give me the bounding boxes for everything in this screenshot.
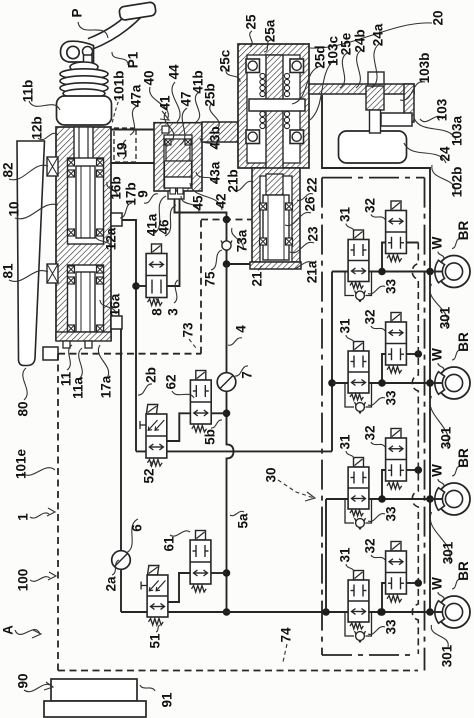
svg-text:102b: 102b <box>450 167 465 198</box>
svg-text:1: 1 <box>16 513 31 521</box>
svg-text:73: 73 <box>181 322 196 338</box>
svg-text:47a: 47a <box>129 84 144 107</box>
svg-text:103: 103 <box>435 98 450 121</box>
svg-text:74: 74 <box>279 627 294 643</box>
svg-text:82: 82 <box>1 162 16 177</box>
svg-text:17a: 17a <box>99 375 114 398</box>
svg-text:103b: 103b <box>417 53 432 84</box>
svg-text:25c: 25c <box>218 49 233 72</box>
svg-text:W: W <box>430 577 445 590</box>
svg-text:25a: 25a <box>263 19 278 42</box>
svg-text:P: P <box>70 8 85 17</box>
svg-text:21: 21 <box>250 271 265 287</box>
svg-text:24: 24 <box>438 146 453 162</box>
svg-text:101e: 101e <box>14 448 29 479</box>
svg-text:81: 81 <box>1 263 16 279</box>
svg-text:32: 32 <box>363 538 378 553</box>
svg-text:7: 7 <box>240 371 255 379</box>
svg-text:9: 9 <box>136 190 151 198</box>
svg-text:52: 52 <box>142 468 157 483</box>
svg-text:16a: 16a <box>108 293 123 316</box>
svg-text:BR: BR <box>456 448 471 468</box>
svg-text:31: 31 <box>338 207 353 223</box>
svg-text:W: W <box>430 464 445 477</box>
svg-text:25e: 25e <box>339 32 354 55</box>
svg-text:A: A <box>1 625 16 635</box>
svg-text:24b: 24b <box>353 29 368 52</box>
svg-text:16b: 16b <box>109 176 124 199</box>
svg-text:3: 3 <box>166 308 181 316</box>
svg-text:6: 6 <box>130 524 145 532</box>
svg-text:62: 62 <box>164 374 179 389</box>
svg-text:301: 301 <box>438 306 453 329</box>
svg-text:P1: P1 <box>126 51 141 68</box>
svg-text:BR: BR <box>456 561 471 581</box>
svg-text:301: 301 <box>439 426 454 449</box>
svg-text:32: 32 <box>363 198 378 213</box>
svg-text:25b: 25b <box>203 83 218 106</box>
svg-text:31: 31 <box>338 318 353 334</box>
svg-text:2a: 2a <box>104 576 119 592</box>
svg-text:23: 23 <box>306 226 321 242</box>
svg-text:41: 41 <box>158 95 173 111</box>
svg-text:301: 301 <box>441 541 456 564</box>
svg-text:33: 33 <box>384 619 399 635</box>
svg-text:40: 40 <box>142 70 157 85</box>
svg-text:11b: 11b <box>21 80 36 103</box>
svg-text:46: 46 <box>157 219 172 235</box>
svg-text:91: 91 <box>160 692 175 708</box>
svg-text:101b: 101b <box>112 71 127 102</box>
svg-text:4: 4 <box>234 325 249 333</box>
svg-text:45: 45 <box>191 195 206 211</box>
svg-text:90: 90 <box>16 673 31 688</box>
svg-text:10: 10 <box>7 201 22 216</box>
svg-text:43a: 43a <box>208 161 223 184</box>
svg-text:32: 32 <box>363 309 378 324</box>
svg-text:75: 75 <box>203 271 218 287</box>
svg-text:22: 22 <box>305 177 320 192</box>
svg-text:12b: 12b <box>30 116 45 139</box>
svg-text:19: 19 <box>115 142 130 157</box>
svg-text:301: 301 <box>440 644 455 667</box>
svg-text:33: 33 <box>384 390 399 406</box>
svg-text:12a: 12a <box>104 227 119 250</box>
svg-text:2b: 2b <box>144 367 159 383</box>
svg-text:31: 31 <box>338 434 353 450</box>
svg-text:33: 33 <box>384 506 399 522</box>
svg-text:BR: BR <box>456 221 471 241</box>
svg-text:61: 61 <box>162 536 177 552</box>
svg-text:100: 100 <box>16 569 31 592</box>
svg-text:25: 25 <box>244 14 259 30</box>
svg-text:5b: 5b <box>203 429 218 445</box>
svg-text:26: 26 <box>303 196 318 212</box>
svg-text:BR: BR <box>456 332 471 352</box>
svg-text:24a: 24a <box>371 23 386 46</box>
svg-text:43b: 43b <box>208 126 223 149</box>
svg-text:33: 33 <box>384 279 399 295</box>
svg-text:32: 32 <box>363 425 378 440</box>
svg-text:44: 44 <box>167 64 182 80</box>
svg-text:21a: 21a <box>305 260 320 283</box>
svg-text:51: 51 <box>148 633 163 649</box>
svg-text:42: 42 <box>214 193 229 208</box>
svg-text:11a: 11a <box>71 377 86 399</box>
svg-text:103a: 103a <box>450 115 465 146</box>
svg-text:20: 20 <box>431 10 446 25</box>
svg-text:W: W <box>430 236 445 249</box>
svg-text:5a: 5a <box>236 513 251 529</box>
svg-text:W: W <box>430 348 445 361</box>
svg-text:8: 8 <box>150 308 165 316</box>
svg-text:30: 30 <box>264 467 279 482</box>
svg-text:73a: 73a <box>235 229 250 252</box>
svg-text:21b: 21b <box>226 169 241 192</box>
svg-text:31: 31 <box>338 547 353 563</box>
svg-text:80: 80 <box>16 401 31 416</box>
